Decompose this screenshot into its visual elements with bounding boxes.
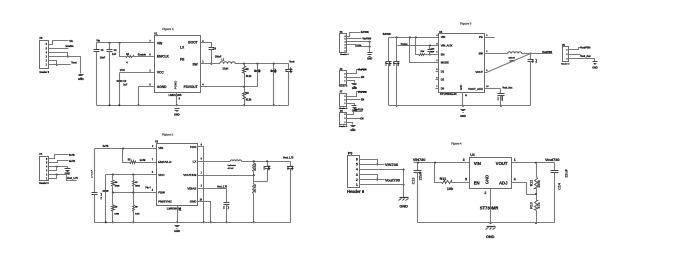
capacitor C15: [528, 54, 539, 106]
svg-text:GND: GND: [459, 85, 463, 91]
svg-text:3: 3: [356, 173, 358, 177]
capacitor C2 1uF: [107, 43, 118, 106]
svg-text:3: 3: [463, 158, 465, 162]
wire P6 pin1: [347, 123, 353, 125]
wire input rail fig4: [414, 162, 470, 164]
wire P8 pin6 to Vin: [49, 41, 69, 45]
wire P7 pin2: [347, 100, 365, 102]
wire input rail fig3: [389, 36, 439, 38]
svg-text:Inductor: Inductor: [228, 164, 236, 167]
wire LX to inductor: [198, 161, 231, 163]
capacitor C1 10uF: [94, 43, 106, 106]
svg-text:VIN: VIN: [158, 146, 163, 150]
svg-text:AGND: AGND: [157, 85, 167, 89]
svg-text:2: 2: [356, 178, 358, 182]
wire P7 pin3: [347, 92, 367, 97]
svg-text:22uF: 22uF: [564, 168, 568, 177]
svg-text:Header 6: Header 6: [347, 189, 365, 194]
svg-text:1: 1: [514, 158, 516, 162]
svg-text:VIN_AUX: VIN_AUX: [441, 43, 453, 47]
connector P8 6-pin header: [40, 37, 50, 74]
node En7B label: [69, 160, 75, 163]
wire D1 stub: [436, 71, 439, 73]
svg-text:Figure 4: Figure 4: [451, 141, 462, 145]
wire P8 pin4 to pin3 junction: [49, 53, 69, 58]
ground GND at P4: [65, 169, 71, 176]
svg-text:10k: 10k: [447, 187, 454, 191]
wire VOUT_AUX line: [485, 86, 514, 89]
svg-text:4: 4: [356, 168, 358, 172]
wire P9 pin2 Vout730: [360, 177, 401, 182]
wire P9 pin3: [360, 175, 379, 181]
resistor R8: [112, 193, 120, 224]
wire P4 pin4 gnd: [49, 166, 68, 169]
svg-text:1uF: 1uF: [112, 53, 117, 56]
svg-text:C7 10uF: C7 10uF: [92, 169, 94, 178]
svg-text:5v7B: 5v7B: [69, 154, 75, 157]
wire VCC line fig2: [106, 172, 157, 175]
svg-text:47k: 47k: [537, 203, 541, 209]
svg-text:Header 3: Header 3: [339, 85, 348, 88]
wire GND pin fig2: [198, 202, 212, 224]
svg-text:Header 6: Header 6: [40, 72, 50, 74]
wire EN branch fig3: [416, 38, 419, 55]
svg-text:GND: GND: [352, 87, 357, 90]
wire P5 pin1: [569, 48, 581, 50]
node 5vP300 at P3: [361, 32, 369, 34]
svg-text:D0: D0: [441, 86, 445, 90]
svg-text:VCC: VCC: [158, 173, 165, 177]
svg-text:5: 5: [356, 163, 358, 167]
svg-text:GND: GND: [174, 112, 180, 116]
wire P3 pin6: [347, 33, 361, 37]
svg-text:GND: GND: [174, 229, 180, 233]
svg-text:R11: R11: [440, 177, 448, 181]
svg-text:GND: GND: [592, 66, 597, 69]
wire P8 pin5 Enable: [49, 48, 69, 50]
wire AGND to ground rail: [137, 87, 154, 107]
svg-text:Vin: Vin: [69, 39, 73, 43]
capacitor C13 22uF fig4: [411, 163, 422, 223]
svg-text:LMR14206: LMR14206: [169, 93, 182, 97]
svg-text:240nH: 240nH: [509, 56, 516, 59]
svg-text:R12: R12: [530, 180, 534, 186]
wire P8 pin2 to pin1 junction: [49, 61, 58, 66]
wire P4 pin1 up: [49, 175, 57, 179]
svg-text:EN: EN: [441, 52, 445, 56]
wire R11 to EN: [452, 182, 470, 184]
svg-text:EN: EN: [361, 100, 365, 102]
resistor R6: [112, 175, 120, 193]
wire P4 pin6 label: [49, 155, 69, 159]
wire FB line fig2: [198, 174, 255, 176]
node VinP120: [355, 110, 364, 112]
svg-text:Figure 3: Figure 3: [460, 21, 472, 25]
svg-text:1uF: 1uF: [123, 83, 128, 86]
wire PG_AUX line: [398, 43, 439, 47]
connector P4 6-pin header: [39, 153, 49, 185]
svg-text:PG: PG: [479, 35, 483, 39]
svg-text:FSV/OUT: FSV/OUT: [184, 85, 198, 89]
svg-text:22uF: 22uF: [419, 171, 423, 180]
wire FSW line fig2: [112, 186, 157, 193]
svg-text:VIN: VIN: [474, 161, 481, 166]
resistor R3 82.5k: [243, 87, 253, 107]
svg-text:Header 3: Header 3: [339, 125, 348, 128]
wire U5 GND pin: [462, 93, 464, 107]
connector P2 header: [339, 69, 348, 88]
svg-text:EN/CLK: EN/CLK: [157, 54, 170, 58]
wire ground rail fig1: [97, 104, 289, 106]
ground GND below P8: [78, 75, 84, 82]
wire Vin input rail: [97, 42, 155, 44]
wire ground rail fig4: [418, 222, 555, 224]
node VoutP300 at P5: [580, 46, 591, 49]
capacitor C8: [101, 175, 109, 223]
svg-text:PAD: PAD: [190, 145, 197, 149]
figure 4 title: [451, 141, 462, 145]
capacitor C3: [117, 73, 128, 106]
wire SW node: [201, 63, 220, 65]
wire P2 pin3: [347, 70, 367, 74]
ground GND fig1: [174, 109, 180, 117]
svg-text:ADJ: ADJ: [499, 180, 508, 185]
node 5vP300 rail label: [383, 33, 392, 36]
svg-text:VIN: VIN: [441, 35, 446, 39]
ground GND fig2: [174, 226, 180, 233]
op-amp U4 ST730MR: [463, 153, 516, 210]
svg-text:VOUT/FB: VOUT/FB: [183, 173, 197, 177]
resistor R5: [128, 159, 136, 163]
resistor R14: [419, 50, 426, 56]
svg-text:Figure 1: Figure 1: [162, 27, 174, 31]
wire input rail fig2: [95, 148, 157, 150]
wire Vout stub fig3: [531, 51, 553, 54]
wire VIN pin stub fig2: [156, 148, 158, 150]
wire R14 to EN pin: [425, 54, 439, 56]
node Vout label at P8: [71, 61, 76, 65]
wire VOUT rail fig4: [512, 162, 555, 164]
capacitor C5 2nF: [255, 64, 261, 87]
resistor R13 47k: [530, 195, 541, 225]
capacitor C11: [223, 189, 230, 224]
svg-text:C13A: C13A: [356, 44, 362, 47]
op-amp U1 regulator LMR14206: [149, 32, 204, 100]
svg-text:VCC: VCC: [157, 70, 164, 74]
wire D2 stub: [436, 79, 439, 81]
connector P7 header: [339, 92, 348, 111]
connector P5 header: [561, 45, 570, 66]
svg-text:Vout_1.75: Vout_1.75: [67, 177, 78, 180]
svg-text:1: 1: [356, 183, 358, 187]
svg-text:FB: FB: [180, 57, 185, 61]
op-amp U5 ST1PS01EJR: [436, 32, 489, 97]
svg-text:PGND: PGND: [174, 80, 178, 89]
svg-text:10uF: 10uF: [100, 57, 106, 60]
node Vout fig1: [289, 59, 294, 63]
node Vin net label: [96, 39, 100, 43]
op-amp U3 regulator: [152, 141, 203, 212]
svg-text:4.7uH: 4.7uH: [228, 167, 234, 170]
svg-text:DNM: DNM: [502, 96, 504, 101]
wire P2 pin1: [347, 81, 355, 83]
svg-text:5v7B: 5v7B: [103, 145, 109, 148]
svg-text:4: 4: [514, 178, 516, 182]
svg-text:VinP900: VinP900: [358, 92, 367, 94]
node Vin label: [69, 39, 73, 43]
svg-text:Header 6: Header 6: [340, 53, 349, 56]
svg-text:Vout_1.75: Vout_1.75: [283, 157, 294, 160]
svg-text:GND: GND: [486, 234, 495, 239]
svg-text:Enable: Enable: [138, 53, 147, 57]
wire VBIAS line: [198, 186, 228, 189]
svg-text:VinP600: VinP600: [358, 69, 367, 71]
wire BOOT: [201, 43, 212, 45]
svg-text:VCC: VCC: [120, 68, 125, 72]
svg-text:Figure 2: Figure 2: [162, 133, 174, 137]
figure 1 title: [162, 27, 174, 31]
node Enable label: [66, 44, 75, 48]
node 5v7B rail label: [103, 145, 109, 148]
connector P9 header: [347, 151, 365, 194]
capacitor C12: [287, 162, 294, 223]
wire U3 bottom pin: [176, 206, 178, 224]
svg-text:R13: R13: [530, 202, 534, 208]
wire ADJ to divider: [512, 183, 538, 196]
ground GND at P2: [352, 84, 358, 91]
svg-text:82.5k: 82.5k: [246, 99, 252, 101]
svg-text:Header 6: Header 6: [39, 183, 49, 185]
node Vout_1.75 rail label: [283, 157, 294, 160]
svg-text:100nF: 100nF: [290, 66, 292, 73]
svg-text:ST1PS01EJR: ST1PS01EJR: [440, 92, 457, 96]
svg-text:C8 1uF: C8 1uF: [101, 192, 103, 200]
svg-text:BOOT: BOOT: [188, 41, 197, 45]
wire U4 GND pin: [490, 189, 492, 225]
svg-text:GND: GND: [350, 129, 355, 132]
svg-text:VinP300: VinP300: [362, 39, 371, 41]
figure 3 title: [460, 21, 472, 25]
capacitor C6 22uF: [271, 64, 278, 107]
capacitor C17: [498, 89, 505, 107]
svg-text:GND: GND: [399, 203, 408, 208]
svg-text:EN: EN: [360, 118, 364, 120]
svg-text:VBIAS: VBIAS: [187, 186, 196, 190]
wire P6 pin3: [347, 112, 363, 115]
wire P3 pin4: [347, 41, 371, 43]
svg-text:SW: SW: [478, 51, 483, 55]
wire P3 pin5: [347, 38, 362, 40]
svg-text:Vout_Aux: Vout_Aux: [580, 55, 591, 58]
svg-text:22uF: 22uF: [275, 68, 277, 74]
svg-text:GND: GND: [78, 77, 84, 81]
resistor R9: [132, 193, 140, 224]
wire P4 pin5 label: [49, 161, 69, 163]
node Vout_Aux at P5: [580, 55, 591, 58]
svg-text:GND: GND: [190, 200, 197, 204]
wire PG stub: [485, 37, 495, 39]
svg-text:R11 7.5k: R11 7.5k: [255, 184, 257, 193]
wire VOUT diagonal: [485, 54, 531, 73]
wire P7 pin1: [347, 104, 355, 106]
svg-text:VinP120: VinP120: [355, 110, 364, 112]
svg-text:VIN: VIN: [157, 42, 163, 46]
node VinP300 at P3: [362, 39, 371, 41]
svg-text:C14: C14: [557, 182, 561, 190]
svg-text:Header 3: Header 3: [339, 107, 348, 110]
svg-text:GND: GND: [485, 175, 490, 184]
node Vout_1.75 at P4: [67, 177, 78, 180]
svg-text:22uF: 22uF: [292, 165, 294, 170]
svg-text:PvAux: PvAux: [401, 43, 409, 46]
svg-text:U4: U4: [470, 153, 474, 157]
wire VCC line: [120, 68, 155, 73]
svg-text:Pin 4: Pin 4: [145, 186, 151, 189]
svg-text:150k: 150k: [537, 180, 541, 188]
svg-text:Vout730: Vout730: [545, 157, 560, 162]
wire U1 PGND pin to ground rail: [176, 93, 178, 107]
svg-text:VoutP300: VoutP300: [542, 51, 553, 54]
svg-text:Header 3: Header 3: [561, 63, 570, 66]
svg-text:VIN730: VIN730: [385, 162, 399, 167]
wire MODE branch: [410, 38, 439, 63]
wire P8 pin3 to ground: [49, 57, 81, 74]
svg-text:10uF: 10uF: [390, 61, 392, 66]
svg-text:EN: EN: [361, 77, 365, 79]
ground GND fig4: [486, 227, 496, 239]
svg-text:GND: GND: [460, 114, 466, 118]
svg-text:5vP300: 5vP300: [361, 32, 369, 34]
svg-text:PM/SYNC: PM/SYNC: [158, 200, 172, 204]
wire R5 to EN pin: [136, 160, 157, 163]
capacitor C14 22uF fig4: [551, 163, 569, 223]
svg-text:DNM: DNM: [115, 186, 120, 188]
svg-text:ST730MR: ST730MR: [480, 205, 499, 210]
figure 2 title: [162, 133, 174, 137]
wire enable branch from rail: [120, 43, 126, 57]
ground GND at P3: [367, 53, 372, 61]
capacitor C7 100nF: [286, 64, 293, 106]
ground GND at P5: [592, 62, 597, 70]
capacitor C4 100nF bootstrap: [209, 45, 223, 65]
ground GND at P6: [350, 126, 355, 133]
wire P9 pin4: [360, 168, 405, 170]
wire D0 stub: [436, 88, 439, 90]
wire ground rail fig2: [95, 221, 291, 223]
wire P5 pin3: [569, 59, 595, 62]
wire P9 ground drop: [403, 170, 405, 198]
resistor R12 150k: [530, 163, 541, 195]
svg-text:Vout: Vout: [289, 59, 294, 63]
svg-text:10uF: 10uF: [536, 58, 538, 63]
wire output rail fig1: [236, 63, 289, 65]
inductor L3: [508, 52, 522, 63]
wire P6 pin2: [347, 118, 364, 120]
svg-text:Vout: Vout: [71, 61, 76, 65]
resistor R1: [126, 53, 134, 65]
inductor L2 fig2: [228, 160, 242, 170]
wire P2 pin2: [347, 77, 365, 79]
connector P3 header: [340, 32, 350, 56]
svg-text:D1: D1: [441, 69, 445, 73]
wire P9 pin5 VIN730: [360, 162, 399, 167]
ground GND at P9: [399, 198, 409, 209]
wire PAD to ground: [198, 147, 205, 224]
svg-text:5: 5: [465, 178, 467, 182]
wire enable branch fig2: [123, 149, 130, 163]
svg-text:D2: D2: [441, 78, 445, 82]
resistor R10: [253, 162, 258, 176]
svg-text:En7B: En7B: [69, 160, 75, 163]
svg-text:VoutP300: VoutP300: [580, 46, 591, 49]
svg-text:SW: SW: [192, 63, 198, 67]
node VIN730 label fig4: [413, 157, 426, 162]
node VinP900: [358, 92, 367, 94]
svg-text:EN/UVLO: EN/UVLO: [158, 160, 172, 164]
wire P9 pin1: [360, 184, 405, 186]
svg-text:FSW: FSW: [158, 190, 165, 194]
node 5v7B label: [69, 154, 75, 157]
wire SW to inductor: [485, 53, 508, 55]
svg-text:GND: GND: [367, 57, 372, 60]
wire P3 gnd drop: [369, 42, 371, 53]
wire feedback line: [201, 86, 258, 88]
svg-text:Vout_1.75: Vout_1.75: [217, 186, 228, 189]
svg-text:VOUT: VOUT: [475, 70, 483, 74]
wire P5 pin2: [569, 54, 581, 56]
capacitor C7b input 10uF: [92, 149, 98, 223]
svg-text:5vP300: 5vP300: [383, 33, 392, 36]
resistor R11 10k: [440, 177, 454, 191]
svg-text:EN: EN: [474, 180, 480, 185]
svg-text:10uF: 10uF: [398, 61, 400, 66]
wire P9 pin6: [360, 160, 379, 166]
svg-text:Enable: Enable: [66, 44, 75, 48]
wire output rail fig2: [242, 160, 291, 162]
svg-text:R10 16k: R10 16k: [255, 163, 257, 171]
svg-text:VOUT_AUX: VOUT_AUX: [468, 87, 483, 91]
node Vout730 label fig4: [545, 157, 560, 162]
svg-text:DNM: DNM: [135, 186, 140, 188]
svg-text:DNM: DNM: [269, 165, 271, 170]
capacitor C13 fig3: [385, 38, 391, 106]
connector P6 header: [339, 111, 348, 128]
resistor R2 40.2k: [243, 64, 253, 87]
resistor R11b: [253, 176, 258, 224]
svg-text:40.2k: 40.2k: [246, 75, 252, 78]
svg-text:22uH: 22uH: [223, 68, 229, 71]
capacitor C16: [428, 46, 436, 56]
wire ground rail fig3: [389, 105, 531, 107]
svg-text:MODE: MODE: [441, 61, 449, 65]
wire P3 pin3: [347, 44, 371, 48]
capacitor C10: [254, 162, 271, 182]
svg-text:En7B: En7B: [140, 160, 146, 162]
inductor L1 22uH: [220, 59, 236, 71]
svg-text:6: 6: [356, 158, 358, 162]
svg-text:VOUT: VOUT: [496, 161, 508, 166]
svg-text:Vout730: Vout730: [385, 177, 401, 182]
wire L3 to Vout node: [522, 52, 532, 54]
wire EN branch fig4: [435, 163, 442, 183]
wire P8 pin1 Vout: [49, 64, 71, 66]
capacitor C14 fig3: [393, 38, 400, 107]
svg-text:Vout_Aux: Vout_Aux: [502, 86, 513, 89]
wire R1 to EN/CLK pin 6: [134, 53, 155, 57]
node VinP600: [358, 69, 367, 71]
resistor R7: [133, 175, 141, 193]
svg-text:DNM: DNM: [114, 214, 119, 216]
